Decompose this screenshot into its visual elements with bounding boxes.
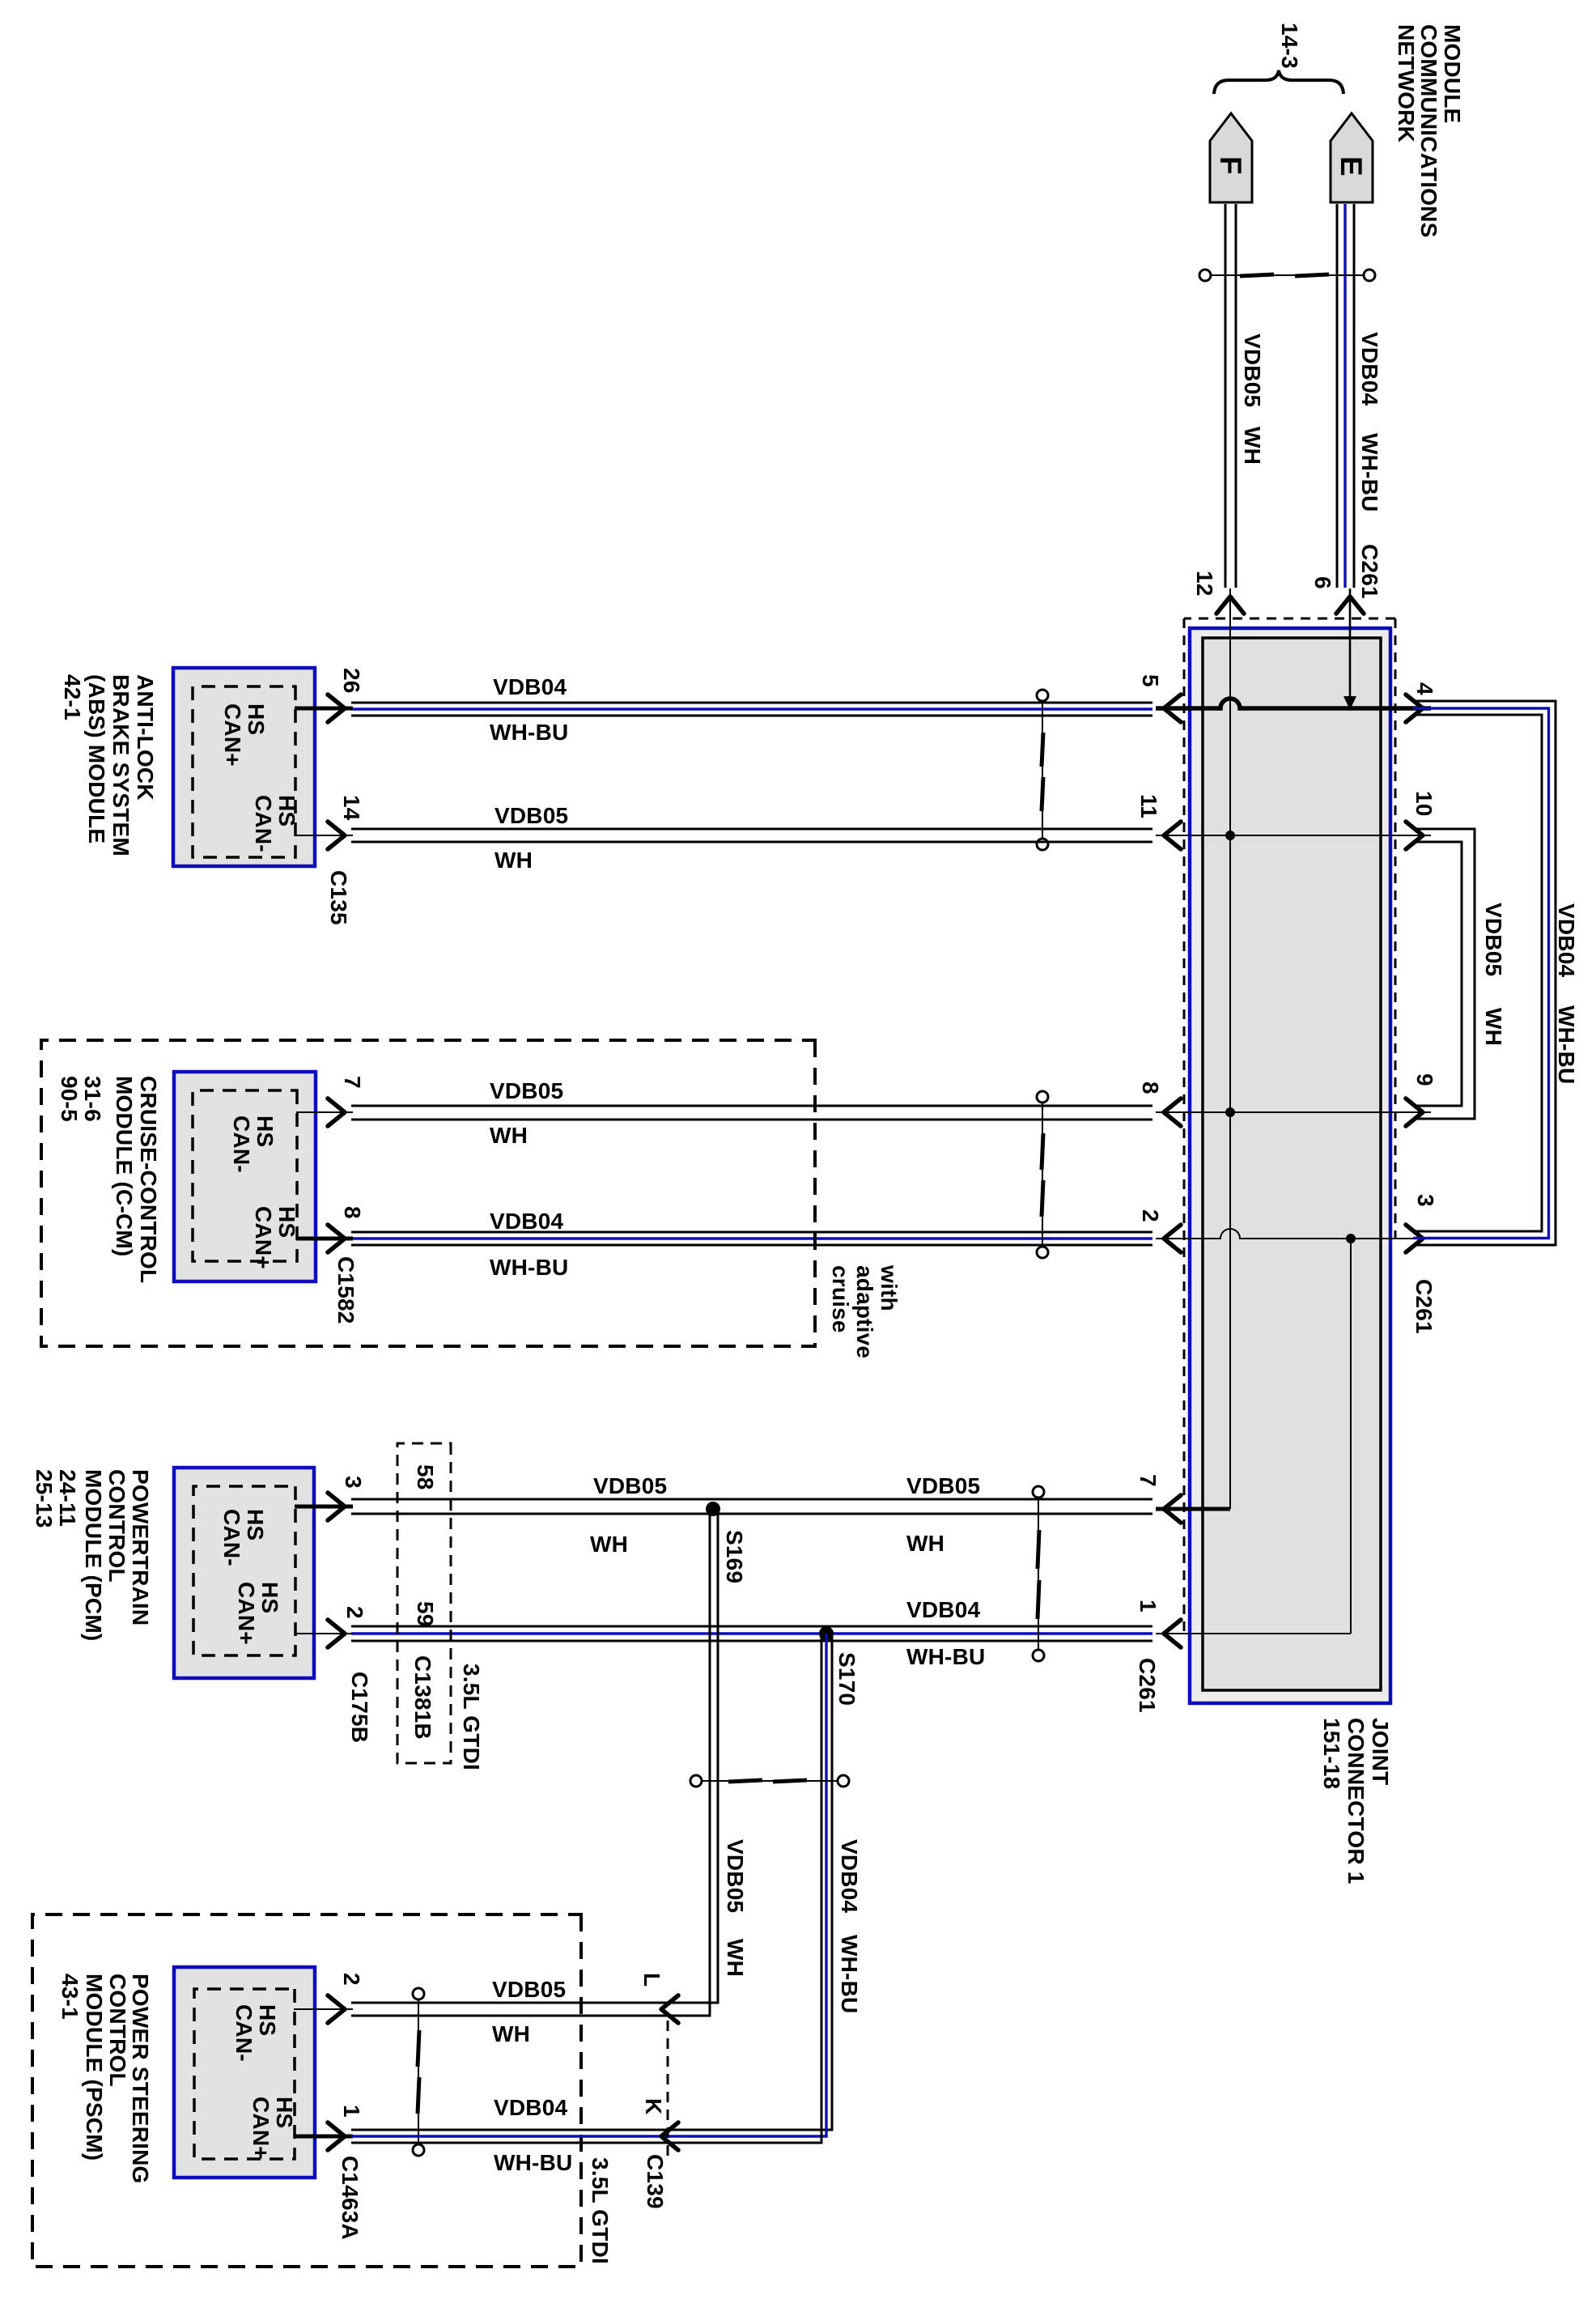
- svg-text:8: 8: [1138, 1082, 1163, 1094]
- svg-text:7: 7: [1135, 1474, 1161, 1487]
- svg-text:CRUISE-CONTROL: CRUISE-CONTROL: [136, 1076, 161, 1283]
- wire VDB05 WH pin 8 to C-CM pin 7: [351, 1106, 1152, 1120]
- pin 3 arrow: [1406, 1225, 1423, 1252]
- PSCM HS CAN- label: [231, 2004, 280, 2062]
- svg-text:K: K: [641, 2098, 666, 2114]
- pin 9 arrow: [1406, 1099, 1423, 1126]
- wire VDB04 WH-BU from S170 to PSCM pin 1: [351, 1634, 832, 2143]
- pin 10 arrow: [1406, 822, 1423, 849]
- PCM pin 3 arrow: [328, 1493, 345, 1520]
- svg-text:(ABS) MODULE: (ABS) MODULE: [84, 674, 109, 844]
- connector C139 dashed boundary: [667, 2021, 669, 2160]
- svg-text:C135: C135: [326, 870, 351, 925]
- C-CM pin 7 lead: [296, 1111, 353, 1113]
- svg-text:VDB05: VDB05: [490, 1078, 563, 1103]
- pin 7 arrow: [1164, 1495, 1181, 1523]
- wire VDB05 WH from S169 to PSCM pin 2: [351, 1506, 718, 2016]
- svg-text:VDB04: VDB04: [493, 674, 567, 699]
- PSCM outer dashed option box: [32, 1914, 581, 2267]
- svg-text:2: 2: [342, 1606, 367, 1619]
- pin 12 arrow into joint connector: [1216, 597, 1244, 614]
- svg-text:6: 6: [1310, 576, 1335, 589]
- ABS module name: [60, 674, 158, 856]
- PCM pin 2 lead: [295, 1633, 353, 1634]
- svg-text:with: with: [877, 1264, 902, 1311]
- internal wire pin 8 to pin 9: [1156, 1111, 1431, 1113]
- svg-text:WH: WH: [590, 1532, 628, 1557]
- splice S169 junction dot: [706, 1502, 720, 1516]
- PCM pin 3 lead: [295, 1505, 353, 1509]
- svg-text:S170: S170: [834, 1652, 860, 1706]
- svg-text:C1463A: C1463A: [337, 2156, 363, 2240]
- svg-text:VDB04: VDB04: [494, 2095, 567, 2120]
- ABS pin 14 lead: [295, 835, 353, 836]
- svg-text:WH: WH: [906, 1531, 944, 1556]
- svg-text:CAN-: CAN-: [219, 1509, 244, 1566]
- svg-text:MODULE (PSCM): MODULE (PSCM): [82, 1974, 107, 2161]
- svg-text:NETWORK: NETWORK: [1394, 24, 1419, 142]
- C-CM HS CAN+ label: [251, 1206, 299, 1269]
- svg-text:WH-BU: WH-BU: [490, 1255, 568, 1280]
- svg-text:58: 58: [413, 1464, 438, 1490]
- C-CM pin 8 arrow: [328, 1225, 345, 1252]
- svg-text:31-6: 31-6: [80, 1076, 105, 1122]
- svg-text:VDB05: VDB05: [492, 1977, 566, 2002]
- svg-text:VDB04: VDB04: [1554, 903, 1579, 977]
- svg-text:3: 3: [341, 1476, 366, 1489]
- svg-text:VDB05: VDB05: [495, 803, 568, 828]
- svg-text:151-18: 151-18: [1319, 1718, 1344, 1789]
- PCM module box: [174, 1468, 314, 1678]
- svg-text:C1582: C1582: [333, 1256, 359, 1324]
- internal wire pin 2 to pin 3 with hop: [1156, 1229, 1431, 1239]
- C-CM pin 8 lead: [296, 1237, 353, 1241]
- svg-text:HS: HS: [255, 2004, 280, 2036]
- svg-text:HS: HS: [244, 703, 269, 735]
- wire VDB04 WH-BU loop from pin 4 to pin 3: [1413, 701, 1556, 1245]
- PCM C1381B dashed box: [397, 1443, 451, 1763]
- svg-text:C261: C261: [1357, 544, 1382, 599]
- svg-text:VDB04: VDB04: [906, 1597, 980, 1622]
- svg-text:59: 59: [413, 1601, 438, 1627]
- svg-text:WH-BU: WH-BU: [1357, 433, 1382, 512]
- C139 pin K arrow: [661, 2123, 678, 2150]
- svg-text:90-5: 90-5: [57, 1076, 82, 1122]
- svg-text:WH-BU: WH-BU: [906, 1644, 985, 1669]
- svg-text:MODULE (C-CM): MODULE (C-CM): [112, 1076, 137, 1256]
- ABS pin 14 arrow: [328, 822, 345, 849]
- svg-text:3.5L GTDI: 3.5L GTDI: [459, 1664, 484, 1770]
- svg-text:HS: HS: [253, 1116, 278, 1147]
- svg-text:WH: WH: [1240, 427, 1265, 465]
- svg-text:WH-BU: WH-BU: [837, 1935, 862, 2013]
- svg-text:12: 12: [1192, 571, 1217, 597]
- svg-text:POWERTRAIN: POWERTRAIN: [128, 1469, 153, 1625]
- svg-text:ANTI-LOCK: ANTI-LOCK: [133, 674, 158, 801]
- wire VDB04 WH-BU pin 2 to C-CM pin 8: [351, 1232, 1152, 1245]
- svg-text:CAN-: CAN-: [231, 2004, 257, 2062]
- splice S170 junction dot: [819, 1626, 834, 1641]
- svg-text:3: 3: [1413, 1194, 1438, 1207]
- svg-text:C175B: C175B: [347, 1672, 372, 1743]
- svg-text:CAN+: CAN+: [248, 2097, 274, 2160]
- wire VDB04 WH-BU pin 1 to PCM pin 2: [351, 1626, 1152, 1641]
- svg-text:HS: HS: [272, 2097, 297, 2128]
- internal wire from pin 12 to pin 7 drop: [1229, 589, 1231, 1509]
- svg-text:1: 1: [1135, 1600, 1161, 1613]
- svg-text:WH: WH: [1481, 1008, 1506, 1046]
- svg-text:VDB04: VDB04: [1357, 332, 1382, 406]
- twisted-pair symbol on PCM wires: [1033, 1486, 1044, 1661]
- svg-text:14: 14: [339, 795, 364, 821]
- ABS HS CAN+ label: [220, 703, 269, 767]
- PSCM HS CAN+ label: [248, 2097, 297, 2160]
- pin 11 arrow: [1164, 822, 1181, 849]
- svg-text:MODULE: MODULE: [1440, 24, 1465, 124]
- PCM HS CAN+ label: [234, 1582, 282, 1645]
- svg-text:VDB05: VDB05: [593, 1473, 667, 1498]
- svg-text:5: 5: [1138, 674, 1163, 687]
- svg-text:VDB05: VDB05: [1481, 903, 1506, 976]
- PSCM module box: [174, 1967, 315, 2178]
- internal drop to pin 7: [1156, 1507, 1230, 1511]
- ABS module box: [173, 668, 315, 866]
- svg-text:HS: HS: [274, 1206, 299, 1238]
- svg-text:CONTROL: CONTROL: [104, 1469, 129, 1583]
- wire VDB04 WH-BU from E to joint connector pin 6: [1337, 204, 1354, 588]
- svg-text:WH-BU: WH-BU: [490, 720, 568, 745]
- svg-text:VDB05: VDB05: [723, 1839, 748, 1913]
- connector arrow E (off-page reference): [1331, 113, 1373, 202]
- C-CM module name: [57, 1076, 161, 1283]
- PCM pin 2 arrow: [328, 1620, 345, 1647]
- PSCM pin 2 lead: [294, 2008, 353, 2010]
- junction dot pin2 line to pin1 line: [1346, 1234, 1356, 1243]
- svg-text:COMMUNICATIONS: COMMUNICATIONS: [1416, 24, 1441, 238]
- internal wire from pin 6 to VDB04 bus: [1349, 589, 1352, 701]
- svg-text:WH: WH: [723, 1939, 748, 1977]
- svg-text:MODULE (PCM): MODULE (PCM): [81, 1469, 106, 1641]
- pin 1 arrow: [1164, 1620, 1181, 1647]
- pin 4 arrow: [1406, 695, 1423, 722]
- svg-text:CONTROL: CONTROL: [105, 1974, 130, 2087]
- svg-text:26: 26: [339, 668, 364, 694]
- svg-text:VDB04: VDB04: [490, 1209, 563, 1234]
- junction dot pin8 line to pin12 line: [1225, 1107, 1235, 1117]
- svg-text:POWER STEERING: POWER STEERING: [128, 1974, 153, 2184]
- connector arrow F (off-page reference): [1210, 113, 1252, 202]
- internal drop to pin 1: [1156, 1633, 1351, 1634]
- twisted-pair symbol on E/F wires: [1199, 270, 1375, 281]
- svg-text:25-13: 25-13: [32, 1469, 57, 1528]
- twisted-pair symbol on PSCM wires: [413, 1988, 424, 2156]
- svg-text:WH: WH: [490, 1123, 528, 1148]
- label with adaptive cruise: [828, 1264, 902, 1358]
- svg-text:HS: HS: [257, 1582, 282, 1613]
- PCM HS CAN- label: [219, 1509, 268, 1566]
- svg-text:11: 11: [1136, 794, 1161, 818]
- svg-text:10: 10: [1411, 791, 1437, 817]
- C139 pin L arrow: [661, 1995, 678, 2023]
- label VDB05 WH on loop: [1481, 903, 1506, 1046]
- pin 5 arrow: [1164, 695, 1181, 722]
- svg-text:CAN+: CAN+: [220, 703, 245, 767]
- svg-text:43-1: 43-1: [57, 1974, 83, 2020]
- svg-text:S169: S169: [722, 1530, 747, 1583]
- pin 2 arrow: [1164, 1225, 1181, 1252]
- svg-text:HS: HS: [243, 1509, 268, 1540]
- PCM module name: [32, 1469, 153, 1641]
- svg-text:CAN-: CAN-: [251, 795, 276, 852]
- svg-text:2: 2: [1138, 1209, 1163, 1222]
- svg-text:CONNECTOR 1: CONNECTOR 1: [1343, 1718, 1369, 1885]
- C-CM outer dashed option box: [41, 1040, 815, 1346]
- twisted-pair symbol on C-CM wires: [1037, 1091, 1048, 1258]
- svg-text:F: F: [1214, 156, 1247, 175]
- internal wire from junction to pin 1 drop: [1350, 1239, 1352, 1634]
- C-CM module box: [174, 1072, 316, 1281]
- wire VDB04 WH-BU pin 5 to ABS pin 26: [351, 703, 1152, 716]
- label JOINT CONNECTOR 1 151-18: [1319, 1718, 1393, 1885]
- wire VDB05 WH pin 7 to PCM pin 3: [351, 1499, 1152, 1514]
- svg-text:24-11: 24-11: [55, 1469, 80, 1527]
- svg-text:1: 1: [339, 2105, 364, 2118]
- svg-text:9: 9: [1412, 1073, 1437, 1086]
- svg-text:VDB04: VDB04: [837, 1839, 862, 1913]
- svg-text:L: L: [639, 1973, 664, 1987]
- joint connector 1 body: [1190, 628, 1390, 1703]
- svg-text:CAN+: CAN+: [251, 1206, 276, 1269]
- svg-text:C261: C261: [1135, 1658, 1160, 1713]
- label VDB05 WH on S169 branch: [723, 1839, 748, 1977]
- svg-text:2: 2: [339, 1973, 364, 1986]
- ABS pin 26 lead: [295, 707, 353, 711]
- svg-text:14-3: 14-3: [1277, 23, 1302, 69]
- pin 6 arrow into joint connector: [1336, 597, 1364, 614]
- svg-text:3.5L GTDI: 3.5L GTDI: [588, 2157, 613, 2264]
- svg-text:WH: WH: [495, 848, 533, 873]
- svg-text:JOINT: JOINT: [1368, 1718, 1393, 1785]
- brace grouping wires E and F: [1214, 70, 1343, 94]
- ABS pin 26 arrow: [328, 695, 345, 722]
- label VDB04 WH-BU on loop: [1554, 903, 1579, 1084]
- twisted-pair symbol on ABS wires: [1037, 690, 1048, 850]
- C-CM pin 7 arrow: [328, 1099, 345, 1126]
- svg-text:HS: HS: [274, 795, 299, 827]
- svg-text:VDB05: VDB05: [906, 1473, 980, 1498]
- svg-text:WH-BU: WH-BU: [1554, 1005, 1579, 1084]
- label VDB05 WH on F wire: [1240, 334, 1265, 465]
- C-CM HS CAN- label: [229, 1116, 278, 1173]
- pin 8 arrow: [1164, 1099, 1181, 1126]
- internal wire pin 11 to pin 10: [1156, 835, 1431, 836]
- svg-text:42-1: 42-1: [60, 674, 85, 720]
- svg-text:BRAKE SYSTEM: BRAKE SYSTEM: [108, 674, 134, 856]
- svg-text:adaptive: adaptive: [852, 1265, 877, 1358]
- label VDB04 WH-BU on S170 branch: [837, 1839, 862, 2013]
- PSCM pin 1 arrow: [328, 2123, 345, 2150]
- svg-text:4: 4: [1412, 682, 1437, 695]
- label VDB04 WH-BU on E wire: [1357, 332, 1382, 512]
- svg-text:CAN+: CAN+: [234, 1582, 259, 1645]
- PSCM pin 1 lead: [294, 2135, 353, 2139]
- svg-text:C261: C261: [1411, 1279, 1437, 1334]
- svg-text:7: 7: [340, 1076, 365, 1089]
- svg-text:E: E: [1335, 156, 1368, 176]
- joint connector 1 dashed outline: [1184, 618, 1395, 1634]
- junction arrow onto bus at pin 6: [1343, 696, 1356, 710]
- title MODULE COMMUNICATIONS NETWORK: [1394, 24, 1465, 238]
- svg-text:cruise: cruise: [828, 1265, 853, 1333]
- ABS HS CAN- label: [251, 795, 299, 852]
- junction dot pin11 line to pin12 line: [1225, 831, 1235, 840]
- svg-text:WH: WH: [492, 2021, 530, 2046]
- svg-text:CAN-: CAN-: [229, 1116, 254, 1173]
- wire VDB05 WH loop from pin 10 to pin 9: [1413, 829, 1475, 1119]
- wire VDB05 WH from F to joint connector pin 12: [1225, 204, 1236, 588]
- twisted-pair symbol on S169/S170 branch wires: [690, 1775, 849, 1787]
- PSCM module name: [57, 1974, 153, 2184]
- svg-text:VDB05: VDB05: [1240, 334, 1265, 407]
- svg-text:C1381B: C1381B: [410, 1655, 435, 1740]
- internal VDB04 bus from pin 5 to pin 4 with hop: [1156, 699, 1431, 708]
- svg-text:WH-BU: WH-BU: [494, 2150, 572, 2175]
- svg-text:C139: C139: [643, 2154, 668, 2209]
- svg-text:8: 8: [340, 1206, 365, 1219]
- wire VDB05 WH pin 11 to ABS pin 14: [351, 829, 1152, 842]
- PSCM pin 2 arrow: [328, 1995, 345, 2023]
